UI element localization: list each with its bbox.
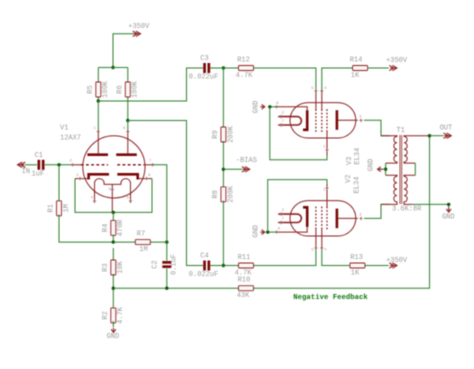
V3 g3 lead pin 1 <box>326 132 328 155</box>
svg-text:4.7K: 4.7K <box>236 72 254 80</box>
svg-text:EL34: EL34 <box>354 148 362 165</box>
svg-text:R3: R3 <box>102 263 110 271</box>
junction C3/R12/R9 node <box>222 66 225 69</box>
V3 g2 lead <box>321 91 323 109</box>
junction R3/R2/feedback node <box>112 287 115 290</box>
power +350V supply arrow (lower right) <box>386 257 408 268</box>
V2 plate lead pin 3 <box>338 217 358 219</box>
wire down to R9 top <box>222 68 224 128</box>
svg-text:0.022uF: 0.022uF <box>189 74 218 82</box>
svg-text:R12: R12 <box>237 57 250 65</box>
V1 plate lead pin 6 <box>127 132 129 154</box>
resistor R4 <box>102 219 125 237</box>
svg-text:OUT: OUT <box>440 124 453 132</box>
svg-text:GND: GND <box>252 101 260 114</box>
V3 cathode lead pin 8 <box>277 107 308 110</box>
svg-text:1M: 1M <box>63 204 71 212</box>
svg-text:R13: R13 <box>350 254 363 262</box>
wire feedback rail left segment <box>113 287 238 289</box>
junction OUT node <box>428 134 431 137</box>
V1 cathode (pin 8) <box>117 174 137 179</box>
svg-text:1uF: 1uF <box>31 170 44 178</box>
svg-text:100K: 100K <box>132 80 140 98</box>
svg-text:0.1uF: 0.1uF <box>170 254 178 275</box>
junction C4/R11/R8 node <box>222 264 225 267</box>
T1 primary upper winding <box>381 136 397 163</box>
wire R6 node to C4 left <box>128 121 203 266</box>
V1 pin 3 <box>78 177 81 180</box>
junction R5 bottom node <box>97 99 100 102</box>
V1 pin 1 <box>97 130 100 133</box>
wire R5 node to C3 left <box>98 68 203 101</box>
wire to R5 top <box>97 68 99 83</box>
svg-text:R10: R10 <box>238 277 251 285</box>
svg-text:T1: T1 <box>396 127 404 135</box>
ground GND at T1 secondary <box>442 208 455 222</box>
V3 g1 lead <box>315 91 317 109</box>
wire R3 bottom to R2 top <box>112 274 114 310</box>
ground GND at V3 cathode <box>252 101 265 114</box>
V1 plate (pin 1) <box>87 153 108 156</box>
V2 heater pin b <box>280 221 283 224</box>
svg-text:100K: 100K <box>102 80 110 98</box>
wire R2 bottom to GND <box>112 321 114 327</box>
svg-text:V3: V3 <box>346 157 354 165</box>
V3 pin 1 <box>325 148 328 151</box>
wire V3 plate to T1 primary top <box>364 120 390 135</box>
wire R9 bottom to R8 top <box>222 141 224 188</box>
wire R1 bottom to cathode rail <box>59 215 113 243</box>
svg-text:V1: V1 <box>60 124 68 132</box>
V1 plate (pin 6) <box>116 153 137 156</box>
wire to R4 top <box>112 212 114 221</box>
resistor R10 <box>237 277 254 300</box>
resistor R11 <box>235 254 254 277</box>
V2 heater pin <box>280 212 283 215</box>
V2 g2 pin <box>320 246 323 249</box>
tube V2 EL34 envelope <box>290 201 356 236</box>
svg-text:3.6K:8R: 3.6K:8R <box>392 206 422 214</box>
junction R4/R3/R7 node <box>112 240 115 243</box>
resistor R12 <box>236 57 254 80</box>
svg-text:R11: R11 <box>238 254 251 262</box>
V3 grid g3 dashed <box>326 109 328 132</box>
svg-text:4.7K: 4.7K <box>117 306 125 324</box>
wire V2 GND to g3 <box>268 180 327 233</box>
power +350V supply arrow (top left) <box>128 23 150 36</box>
V1 heater filaments pins 4,5,9 <box>95 179 131 213</box>
wire secondary bottom to GND <box>412 203 449 205</box>
V1 pin 5 <box>111 188 114 191</box>
tube V1 12AX7 envelope <box>83 136 145 198</box>
junction -BIAS node <box>222 168 225 171</box>
wire IN arrow to C1 <box>25 164 37 166</box>
resistor R7 <box>135 231 150 254</box>
svg-text:GND: GND <box>107 333 120 341</box>
wire V3 g2 up to R14 left <box>322 68 353 91</box>
resistor R3 <box>102 260 125 275</box>
svg-text:+350V: +350V <box>128 23 150 31</box>
svg-text:Negative Feedback: Negative Feedback <box>293 294 368 302</box>
wire rail across R5/R6 tops <box>98 67 128 69</box>
V2 grid g2 dashed <box>321 207 323 230</box>
power -BIAS supply arrow <box>236 157 257 172</box>
svg-text:R8: R8 <box>212 190 220 198</box>
resistor R1 <box>48 201 71 216</box>
V2 grid g3 dashed <box>326 207 328 230</box>
V1 grid lead pin 2 <box>73 164 82 166</box>
wire R5 bottom <box>97 97 99 101</box>
ground GND at T1 center tap <box>367 159 382 172</box>
V2 cathode bar <box>303 207 309 227</box>
V3 cathode bar <box>303 110 309 130</box>
wire to R6 top <box>127 68 129 83</box>
wire R11 right to V2 grid g1 <box>254 248 316 266</box>
V2 g1 pin <box>314 246 317 249</box>
T1 secondary upper winding <box>404 136 430 163</box>
junction R5/R6 top node <box>111 66 114 69</box>
V1 pin 7 <box>151 163 154 166</box>
wire R4 bottom <box>112 235 114 243</box>
wire V1 cathode bus <box>75 179 152 213</box>
svg-text:GND: GND <box>367 159 375 172</box>
wire R8 bottom to C4/R11 node <box>222 201 224 266</box>
V1 grid (pin 2) dashed <box>81 164 108 166</box>
V3 g1 pin <box>314 89 317 92</box>
wire to -BIAS arrow <box>223 168 242 170</box>
resistor R5 <box>87 80 110 98</box>
junction R6 bottom node <box>126 119 129 122</box>
wire feedback rail to OUT node <box>254 136 430 289</box>
svg-text:C3: C3 <box>200 55 208 63</box>
junction T1 primary center tap <box>384 168 387 171</box>
V2 plate bar <box>336 209 339 229</box>
transformer T1 core <box>400 135 402 204</box>
capacitor C4 <box>189 253 218 279</box>
wire R14 right to +350V arrow <box>368 67 389 69</box>
V2 g1 lead <box>315 229 317 248</box>
svg-text:V2: V2 <box>345 175 353 183</box>
svg-text:+350V: +350V <box>386 257 408 265</box>
V1 pin 6 <box>126 130 129 133</box>
wire R7 right <box>150 241 167 243</box>
svg-text:IN: IN <box>22 168 30 176</box>
svg-text:R2: R2 <box>102 311 110 319</box>
wire V1 pin 7 down to R7/C2 node <box>153 165 167 242</box>
wire down to R1 <box>58 165 60 202</box>
V3 heater pin b <box>280 123 283 126</box>
wire R13 right to +350V arrow <box>365 265 389 267</box>
svg-text:GND: GND <box>253 225 261 238</box>
V1 cathode lead pin 3 <box>75 178 88 180</box>
svg-text:1K: 1K <box>351 269 360 277</box>
capacitor C3 <box>189 55 218 81</box>
wire stub to GND arrow <box>448 204 450 209</box>
ground GND below R2 <box>107 328 120 341</box>
V1 cathode lead pin 8 <box>138 178 152 180</box>
svg-text:R4: R4 <box>102 224 110 232</box>
V3 pin 8 <box>275 105 278 108</box>
power +350V supply arrow (upper right) <box>386 57 408 71</box>
V1 pin 4 <box>93 199 96 202</box>
svg-text:+350V: +350V <box>386 57 408 65</box>
V1 plate lead pin 1 <box>97 132 99 154</box>
resistor R9 <box>212 125 235 143</box>
svg-text:R14: R14 <box>350 57 363 65</box>
resistor R6 <box>116 80 139 98</box>
wire V2 g2 down to R13 left <box>322 248 351 266</box>
junction secondary GND node <box>447 203 450 206</box>
svg-text:EL34: EL34 <box>353 177 361 194</box>
svg-text:R1: R1 <box>48 204 56 212</box>
V3 heater pin <box>280 115 283 118</box>
T1 primary lower winding <box>381 175 397 204</box>
svg-text:C1: C1 <box>35 152 43 160</box>
wire R4 node to R3 top <box>112 248 114 261</box>
V2 g3 lead pin 1 <box>326 184 328 207</box>
V3 g2 pin <box>320 89 323 92</box>
wire C2 bottom to feedback rail <box>166 269 168 289</box>
capacitor C2 <box>151 254 178 275</box>
V1 pin 9 <box>129 199 132 202</box>
V2 pin 1 <box>325 186 328 189</box>
V1 pin 2 <box>71 163 74 166</box>
tube V3 EL34 envelope <box>290 103 356 138</box>
resistor R8 <box>212 185 235 203</box>
svg-text:-BIAS: -BIAS <box>236 157 257 165</box>
svg-text:C4: C4 <box>200 253 208 261</box>
V1 grid lead pin 7 <box>144 164 153 166</box>
wire R6 bottom <box>127 97 129 121</box>
wire R12 right to V3 grid g1 <box>254 68 316 91</box>
V1 cathode (pin 3) <box>89 174 109 179</box>
V2 heater pins 2,7 <box>278 214 301 222</box>
wire center tap to GND <box>381 168 386 170</box>
wire T1 primary center link <box>385 163 387 175</box>
svg-text:470R: 470R <box>117 219 125 237</box>
svg-text:R5: R5 <box>87 85 95 93</box>
svg-text:10K: 10K <box>117 260 125 273</box>
resistor R14 <box>350 57 368 80</box>
svg-text:1M: 1M <box>139 246 147 254</box>
wire down to C2 <box>166 242 168 260</box>
junction R7/C2/grid node <box>165 240 168 243</box>
output OUT supply arrow <box>440 124 453 138</box>
junction cathode bus / R4 <box>112 211 115 214</box>
ground GND at V2 cathode <box>253 225 265 238</box>
resistor R13 <box>350 254 365 277</box>
T1 secondary lower winding <box>404 175 415 204</box>
svg-text:12AX7: 12AX7 <box>60 134 81 142</box>
V2 g2 lead <box>321 229 323 248</box>
wire V2 cathode to GND <box>268 231 277 233</box>
V2 grid g1 dashed <box>315 207 317 230</box>
V2 pin 8 <box>275 230 278 233</box>
V3 grid g2 dashed <box>321 109 323 132</box>
svg-text:GND: GND <box>442 213 455 221</box>
input IN supply arrow <box>18 162 31 176</box>
resistor R2 <box>102 306 125 324</box>
V2 cathode lead pin 8 <box>277 227 308 232</box>
svg-text:1K: 1K <box>351 72 360 80</box>
V3 grid g1 dashed <box>315 109 317 132</box>
svg-text:0.022uF: 0.022uF <box>189 271 218 279</box>
V1 pin 8 <box>145 177 148 180</box>
V3 heater pins 2,7 <box>278 117 301 125</box>
junction V2 GND node <box>266 230 269 233</box>
wire R6 node down to V1 pin 6 <box>127 121 129 132</box>
V3 plate bar <box>336 110 339 130</box>
svg-text:200K: 200K <box>227 185 235 203</box>
wire C1 to V1 grid pin 2 <box>45 164 73 166</box>
wire C4 right to R11 left <box>210 265 238 267</box>
svg-text:43K: 43K <box>237 292 250 300</box>
wire +350V to R5/R6 rail <box>113 34 134 68</box>
V1 grid (pin 7) dashed <box>117 164 144 166</box>
V3 plate lead pin 3 <box>338 119 358 121</box>
wire to R7 left <box>113 241 135 243</box>
wire V3 cathode to GND <box>270 106 277 108</box>
wire secondary top to OUT arrow <box>430 135 444 137</box>
svg-text:R6: R6 <box>116 85 124 93</box>
V3 pin 3 <box>359 119 362 122</box>
svg-text:4.7K: 4.7K <box>235 269 253 277</box>
capacitor C1 <box>31 152 44 178</box>
svg-text:R9: R9 <box>212 130 220 138</box>
wire V3 GND to g3 <box>270 107 327 160</box>
V2 pin 3 <box>359 217 362 220</box>
junction V3 GND node <box>268 105 271 108</box>
junction C1/R1 node <box>57 163 60 166</box>
wire C3 right to R12 left <box>210 67 238 69</box>
wire V2 plate to T1 primary bottom <box>364 204 390 218</box>
svg-text:200K: 200K <box>227 125 235 143</box>
svg-text:C2: C2 <box>151 260 159 268</box>
junction C2/feedback rail <box>165 287 168 290</box>
svg-text:R7: R7 <box>137 231 145 239</box>
wire T1 secondary center link <box>414 163 416 175</box>
wire R5 node down to V1 pin 1 <box>97 101 99 132</box>
